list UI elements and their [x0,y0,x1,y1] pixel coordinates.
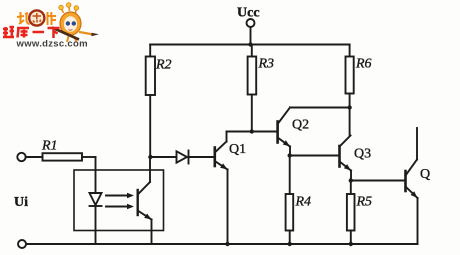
svg-text:R1: R1 [41,139,58,154]
wire Q2 collector to R6 bottom [290,107,350,109]
node R3 bottom junction [250,129,254,133]
input terminal top [17,153,25,161]
svg-text:Q2: Q2 [292,118,309,133]
light arrow 2 [106,204,134,210]
wire Q2 emitter to Q3 base [290,155,339,157]
LED (optocoupler emitter diode) [90,193,102,244]
node Ucc junction [248,42,252,46]
svg-text:Q1: Q1 [229,142,246,157]
wire top power rail [150,44,349,46]
transistor Q2 [278,108,290,156]
logo text weikuyixia (red) [3,27,60,38]
resistor R3 [248,45,257,132]
node R5 bottom on rail [349,242,353,246]
power terminal Ucc [247,19,255,45]
svg-text:Q3: Q3 [354,147,371,162]
transistor Q1 [215,132,228,245]
node Q1 emitter on rail [225,242,229,246]
node Q3 emitter junction [349,178,353,182]
resistor R5 [347,181,355,245]
svg-text:www.dzsc.com: www.dzsc.com [16,39,88,50]
resistor R4 [286,156,294,245]
resistor R2 [146,45,155,158]
svg-text:Ucc: Ucc [237,6,260,21]
svg-text:R6: R6 [355,57,372,72]
node R4 bottom on rail [288,242,292,246]
logo mascot [52,3,99,42]
wire Q3 emitter to Q base [351,180,405,182]
resistor R1 [26,153,96,160]
transistor Q [406,128,418,244]
svg-text:R3: R3 [258,57,275,72]
input terminal bottom [18,240,26,248]
phototransistor of optocoupler [138,157,152,244]
svg-text:R4: R4 [295,195,312,210]
transistor Q3 [340,108,352,181]
svg-text:R5: R5 [356,195,373,210]
svg-text:Q: Q [420,167,430,182]
logo seal circle with xin [29,10,44,25]
diode D [177,151,215,164]
resistor R6 [346,45,354,108]
wire node A to diode [150,156,176,158]
optocoupler box [74,170,164,231]
logo watermark dzsc [3,3,99,50]
light arrow 1 [106,193,134,199]
wire bottom ground rail [26,243,418,245]
wire R1 down to LED [95,157,97,193]
svg-text:R2: R2 [155,58,172,73]
node A: R2 / photocollector / diode junction [148,155,152,159]
logo char pian (orange) [48,12,57,25]
node R6 / Q2 / Q3 collectors junction [347,105,351,109]
node Q2 emitter junction [288,153,292,157]
wire Q1 collector to Q2 base [227,131,278,133]
svg-text:Ui: Ui [14,195,28,210]
logo char zhao (orange) [17,12,30,24]
